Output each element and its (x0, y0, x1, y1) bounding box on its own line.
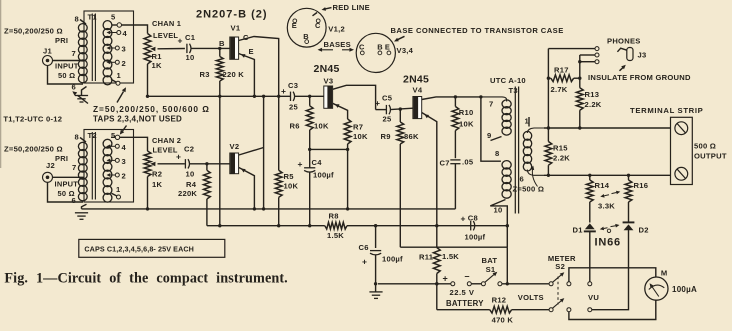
svg-text:3.3K: 3.3K (598, 202, 615, 211)
label INPUT 50ohm (chan1) (55, 62, 79, 81)
svg-text:E: E (249, 47, 254, 56)
svg-text:8: 8 (75, 133, 79, 142)
svg-text:B: B (377, 42, 383, 51)
T3 pin 1 stub (525, 117, 530, 127)
J3 sleeve wire (580, 61, 595, 63)
taps note arrow left (72, 91, 88, 103)
input jack J1 (43, 47, 53, 66)
svg-text:2N45: 2N45 (314, 63, 340, 75)
resistor R16 (625, 175, 648, 222)
diode D2 (623, 222, 649, 234)
svg-text:Fig. 1—Circuit of the compact: Fig. 1—Circuit of the compact instrument… (4, 270, 287, 286)
transistor V2 (230, 142, 240, 174)
label taps note (93, 104, 210, 124)
pot R1 1K (144, 34, 162, 71)
switch S2 lower (549, 298, 592, 312)
svg-text:LEVEL: LEVEL (153, 31, 178, 40)
svg-text:B: B (219, 39, 225, 48)
svg-text:C7: C7 (440, 159, 450, 168)
capacitor C5 (375, 94, 393, 124)
capacitor C1 (178, 33, 196, 62)
wire C2 to V2 base (189, 162, 230, 165)
svg-text:2: 2 (122, 59, 126, 68)
resistor R8 1.5K (325, 212, 347, 241)
label V3,4 (397, 46, 414, 55)
svg-text:+: + (461, 214, 466, 224)
wire R11 to volts row (437, 284, 490, 310)
V1 emitter wire (239, 54, 257, 99)
label 2N45 (V4) (403, 74, 429, 86)
svg-text:1K: 1K (152, 180, 162, 189)
V4 emitter wire (422, 113, 439, 248)
svg-text:Z=50,200/250 Ω: Z=50,200/250 Ω (4, 27, 63, 36)
transistor V1 (230, 24, 241, 60)
svg-text:B: B (303, 32, 309, 41)
svg-text:C1: C1 (185, 33, 196, 42)
capacitor C8 (461, 214, 486, 242)
svg-text:7: 7 (72, 49, 76, 58)
svg-text:E: E (292, 21, 297, 30)
wire C7 to ground bus corner (454, 164, 456, 209)
capacitor C2 (176, 145, 194, 179)
svg-text:8: 8 (75, 15, 79, 24)
svg-text:86K: 86K (404, 132, 419, 141)
wire D2 to S2 (592, 230, 629, 310)
page edge artifact (0, 0, 1, 168)
svg-text:Z=500 Ω: Z=500 Ω (513, 185, 545, 194)
svg-text:+: + (375, 98, 380, 108)
T1 tap 4 (107, 29, 128, 38)
V1 collector wire (239, 37, 279, 97)
transformer T2 box (84, 130, 134, 203)
label BASE CONNECTED TO TRANSISTOR CASE (391, 26, 564, 42)
svg-text:10K: 10K (284, 182, 299, 191)
resistor R12 470K (490, 296, 514, 325)
svg-text:R4: R4 (186, 180, 197, 189)
capacitor C7 .05 (440, 158, 474, 168)
svg-text:100µA: 100µA (672, 285, 697, 294)
svg-text:2.7K: 2.7K (551, 85, 568, 94)
svg-text:C8: C8 (468, 214, 478, 223)
resistor R14 33K (586, 175, 609, 222)
wire S1 to S2 (502, 282, 549, 285)
svg-text:INPUT: INPUT (55, 180, 79, 189)
svg-text:S1: S1 (486, 265, 496, 274)
svg-text:7: 7 (72, 163, 76, 172)
svg-text:C: C (315, 21, 321, 30)
J3 contact circles (595, 47, 599, 64)
label INPUT 50ohm (chan2) (55, 180, 79, 199)
J3 tip wire (548, 48, 595, 50)
resistor R10 10K (452, 97, 474, 158)
switch S2 upper (549, 272, 592, 286)
wire J2 shell to T2 pin 6 (48, 182, 84, 202)
capacitor C4 (298, 149, 335, 227)
caps note box (79, 239, 225, 257)
svg-text:INPUT: INPUT (55, 62, 79, 71)
label 2N207-B(2) (196, 9, 268, 21)
arrow to secondary (531, 166, 538, 187)
T1 tap 5 (112, 23, 122, 27)
svg-text:220K: 220K (178, 189, 197, 198)
svg-text:T1,T2-UTC 0-12: T1,T2-UTC 0-12 (3, 115, 62, 124)
wire batt to S1 (471, 283, 481, 285)
svg-text:V1: V1 (231, 24, 241, 33)
terminal screw lower (675, 167, 688, 180)
svg-text:R3: R3 (200, 70, 210, 79)
svg-text:9: 9 (487, 131, 491, 140)
wire tap5 to R1 (122, 25, 148, 34)
wire J2 to T2 pin 7 (53, 163, 85, 177)
svg-text:2N207-B (2): 2N207-B (2) (196, 9, 268, 21)
R1 wiper arrow (150, 47, 185, 52)
svg-text:BATTERY: BATTERY (446, 299, 484, 308)
svg-text:RED LINE: RED LINE (333, 3, 370, 12)
svg-text:BASE CONNECTED TO TRANSISTOR C: BASE CONNECTED TO TRANSISTOR CASE (391, 26, 564, 35)
T1 tap 1 (111, 71, 122, 85)
resistor R11 1.5K (419, 248, 459, 286)
svg-text:.05: .05 (462, 158, 474, 167)
svg-text:PRI: PRI (55, 154, 68, 163)
ground symbol at C6 (369, 284, 382, 299)
T2 tap 4 (107, 143, 127, 152)
transistor V4 (413, 86, 423, 119)
label PHONES (607, 37, 641, 46)
meter bottom wire (569, 300, 656, 319)
svg-text:C5: C5 (382, 94, 393, 103)
label INSULATE FROM GROUND (588, 65, 691, 82)
resistor R3 220K (200, 48, 245, 227)
svg-text:2N45: 2N45 (403, 74, 429, 86)
svg-text:R13: R13 (585, 90, 600, 99)
label 3.3K (598, 202, 615, 211)
svg-text:1K: 1K (152, 61, 162, 70)
resistor R15 2.2K (545, 142, 570, 176)
transistor V3 (324, 77, 334, 109)
label 22.5V BATTERY (446, 288, 484, 308)
V3 emitter wire (333, 103, 348, 119)
svg-text:CHAN 2: CHAN 2 (152, 136, 181, 145)
T1 core (92, 14, 95, 82)
svg-text:V3,4: V3,4 (397, 46, 414, 55)
svg-text:8: 8 (495, 149, 499, 158)
meter top wire (569, 268, 656, 282)
T2 pin 8 stub (75, 133, 87, 143)
terminal strip (671, 117, 693, 184)
label CHAN 1 LEVEL (152, 19, 181, 40)
label VOLTS (518, 293, 544, 302)
T3 pin 6 label (520, 175, 524, 184)
svg-text:J3: J3 (638, 51, 647, 60)
R13 top riser (578, 55, 581, 88)
S2 gang dashed link (557, 277, 559, 305)
label 500 ohm OUTPUT (694, 142, 727, 161)
svg-text:C: C (359, 42, 365, 51)
svg-text:R6: R6 (290, 122, 300, 131)
label V1,2 (328, 25, 345, 34)
svg-text:PHONES: PHONES (607, 37, 641, 46)
svg-text:6: 6 (72, 83, 76, 92)
svg-text:–: – (465, 271, 470, 281)
gang arrows R14 R16 (600, 191, 620, 198)
resistor R5 10K (275, 96, 298, 227)
T2 tap 5 (111, 135, 120, 139)
minus bus right segment (347, 224, 509, 227)
wire C5 to V4 base (376, 107, 413, 110)
battery terminals (443, 271, 472, 286)
svg-text:TERMINAL STRIP: TERMINAL STRIP (630, 106, 703, 115)
T3 pin 9 stub (487, 131, 502, 141)
svg-text:C6: C6 (359, 243, 369, 252)
svg-text:C4: C4 (312, 158, 323, 167)
svg-text:R8: R8 (329, 212, 339, 221)
svg-text:+: + (298, 159, 303, 169)
svg-text:+: + (281, 86, 286, 96)
svg-text:VU: VU (588, 293, 599, 302)
svg-text:22.5 V: 22.5 V (450, 288, 475, 297)
V4 collector wire (422, 95, 483, 99)
wire T2 tap5 to R2 (120, 137, 148, 151)
svg-text:D2: D2 (639, 226, 649, 235)
T2 core (92, 132, 95, 200)
resistor R17 2.7K (548, 66, 579, 95)
J3 tip spring (617, 48, 626, 52)
wire J1 shell to T1 pin 6 (48, 66, 84, 85)
output return wire (544, 174, 671, 177)
figure caption (4, 270, 287, 286)
pot R2 1K (144, 151, 162, 189)
svg-text:100µf: 100µf (465, 233, 486, 242)
svg-text:R11: R11 (419, 253, 434, 262)
svg-text:BAT: BAT (482, 256, 498, 265)
svg-text:+: + (443, 274, 449, 284)
svg-text:R12: R12 (492, 296, 507, 305)
label T1,T2-UTC 0-12 (3, 115, 62, 124)
V2 collector wire (239, 148, 264, 156)
svg-text:4: 4 (122, 143, 127, 152)
wire R6/C4 node to R7 (310, 148, 348, 150)
svg-text:V4: V4 (413, 86, 423, 95)
phones vertical feed (547, 49, 550, 142)
svg-text:R9: R9 (381, 132, 391, 141)
resistor R6 10K (290, 96, 329, 151)
resistor R4 220K (178, 164, 210, 226)
capacitor C6 (359, 226, 404, 286)
svg-text:10: 10 (494, 206, 503, 215)
svg-text:R7: R7 (353, 123, 363, 132)
label CHAN 2 LEVEL (152, 136, 181, 155)
svg-text:INSULATE FROM GROUND: INSULATE FROM GROUND (588, 73, 691, 82)
svg-text:OUTPUT: OUTPUT (694, 152, 727, 161)
svg-text:E: E (385, 42, 390, 51)
T1 secondary winding (103, 21, 112, 85)
svg-text:100µf: 100µf (313, 171, 334, 180)
label RED LINE (322, 3, 370, 12)
svg-text:+: + (176, 152, 181, 162)
transistor basing V1,2 (287, 8, 326, 47)
T2 tap 3 (107, 157, 126, 166)
svg-text:S2: S2 (555, 262, 565, 271)
label TERMINAL STRIP (630, 106, 703, 115)
svg-text:2.2K: 2.2K (585, 100, 602, 109)
svg-text:LEVEL: LEVEL (153, 146, 178, 155)
label 2N45 (V3) (314, 63, 340, 75)
svg-text:C3: C3 (288, 81, 298, 90)
svg-text:500 Ω: 500 Ω (694, 142, 716, 151)
wire R2 bottom to ground bus (146, 177, 149, 211)
svg-text:TAPS 2,3,4,NOT USED: TAPS 2,3,4,NOT USED (93, 115, 182, 124)
T2 secondary winding (103, 139, 112, 202)
label Z=50,200/250 PRI (chan 1) (4, 27, 68, 45)
capacitor C3 (281, 81, 298, 112)
svg-text:6: 6 (520, 175, 524, 184)
T2 pin 6 lead (72, 196, 87, 209)
svg-text:UTC A-10: UTC A-10 (490, 76, 526, 85)
svg-text:R14: R14 (595, 181, 610, 190)
T2 primary winding (78, 142, 87, 201)
svg-text:10: 10 (186, 53, 195, 62)
svg-text:5: 5 (111, 13, 116, 22)
label Z=500 ohm (513, 185, 545, 194)
label 100uA (672, 285, 697, 294)
svg-text:R16: R16 (634, 181, 649, 190)
svg-text:10K: 10K (459, 120, 474, 129)
ground bus wire (82, 208, 456, 210)
svg-text:50 Ω: 50 Ω (58, 71, 75, 80)
wire R1 bottom to node (146, 64, 149, 98)
svg-text:2: 2 (122, 172, 126, 181)
svg-text:1: 1 (116, 185, 121, 194)
terminal screw upper (675, 122, 688, 135)
T1 pin 8 stub (75, 15, 87, 25)
wire node to V2 collector riser (262, 95, 265, 211)
label BASES (318, 40, 355, 52)
T3 core (515, 87, 518, 214)
svg-text:R15: R15 (553, 144, 568, 153)
R2 wiper arrow (150, 162, 185, 167)
svg-text:J2: J2 (46, 161, 55, 170)
phone jack J3 (627, 48, 647, 61)
red line mark (313, 13, 318, 16)
label UTC A-10 T3 (490, 76, 526, 95)
svg-text:100µf: 100µf (382, 255, 403, 264)
battery wire (378, 282, 451, 285)
svg-text:6: 6 (72, 196, 76, 205)
T2 tap 2 (107, 172, 126, 181)
svg-text:R10: R10 (459, 108, 474, 117)
svg-text:3: 3 (122, 157, 126, 166)
wire C1 to V1 base (191, 39, 230, 50)
svg-text:T3: T3 (509, 86, 518, 95)
taps note arrow to T1 (117, 87, 126, 102)
svg-text:10: 10 (186, 170, 195, 179)
label VU (588, 293, 599, 302)
V1 collector label (243, 33, 249, 42)
wire C3 to V3 base (295, 95, 324, 98)
T1 pin 6 lead (72, 83, 87, 96)
T3 primary lower coil (502, 161, 511, 199)
svg-text:C2: C2 (184, 145, 194, 154)
label IN66 (595, 236, 621, 248)
meter needle (649, 283, 665, 296)
svg-text:25: 25 (383, 115, 392, 124)
svg-text:V2: V2 (230, 142, 240, 151)
svg-text:1.5K: 1.5K (327, 231, 344, 240)
T3 primary upper coil (481, 97, 511, 135)
svg-text:7: 7 (489, 100, 493, 109)
svg-text:Z=50,200/250, 500/600 Ω: Z=50,200/250, 500/600 Ω (93, 104, 210, 114)
svg-text:R17: R17 (554, 66, 569, 75)
ground at T1 pin 6 (75, 96, 88, 103)
svg-text:IN66: IN66 (595, 236, 621, 248)
taps note arrow to T2 (120, 126, 127, 135)
svg-text:470 K: 470 K (492, 316, 514, 325)
wire J1 to T1 pin 7 (53, 49, 85, 61)
svg-text:CAPS C1,2,3,4,5,6,8- 25V EACH: CAPS C1,2,3,4,5,6,8- 25V EACH (84, 244, 194, 253)
meter M (645, 269, 668, 301)
svg-text:J1: J1 (43, 47, 52, 56)
T1 tap 3 (107, 45, 126, 54)
label Z=50,200/250 PRI (chan 2) (4, 145, 68, 164)
wire R12 to S2 lower (512, 309, 549, 311)
T1 tap 2 (107, 59, 126, 68)
V3 collector wire (333, 85, 376, 109)
T3 pin 10 lead (490, 200, 507, 248)
svg-text:D1: D1 (573, 226, 584, 235)
svg-text:+: + (362, 257, 367, 267)
svg-text:V3: V3 (324, 77, 334, 86)
V1 emitter label (249, 47, 254, 56)
resistor R7 10K (344, 119, 368, 211)
T1 primary winding (78, 24, 87, 83)
svg-text:1: 1 (117, 71, 122, 80)
svg-text:4: 4 (123, 29, 128, 38)
resistor R9 86K (381, 109, 419, 247)
output hot wire (544, 126, 671, 129)
svg-text:R2: R2 (152, 170, 162, 179)
wire D1 to S2 (589, 231, 591, 282)
svg-text:BASES: BASES (324, 40, 351, 49)
J3 mid wire (580, 54, 595, 56)
ground symbol at T2 (75, 213, 88, 220)
supply riser (506, 247, 508, 284)
svg-text:3: 3 (122, 45, 126, 54)
svg-text:CHAN 1: CHAN 1 (152, 19, 181, 28)
resistor R13 2.2K (576, 88, 601, 128)
wire R9 bottom rail (400, 246, 507, 248)
svg-text:M: M (661, 269, 668, 278)
svg-text:1.5K: 1.5K (442, 252, 459, 261)
svg-text:10K: 10K (353, 132, 368, 141)
svg-text:PRI: PRI (55, 36, 68, 45)
svg-text:V1,2: V1,2 (328, 25, 345, 34)
switch S1 (481, 256, 502, 286)
svg-text:+: + (178, 36, 183, 46)
svg-text:220 K: 220 K (223, 70, 245, 79)
minus bus left segment (207, 225, 325, 227)
svg-text:2.2K: 2.2K (553, 154, 570, 163)
svg-text:1: 1 (525, 117, 530, 126)
T3 secondary winding (523, 128, 544, 175)
svg-text:VOLTS: VOLTS (518, 293, 544, 302)
node wire to C3 (148, 95, 291, 98)
label METER S2 (548, 254, 576, 271)
transformer T1 box (84, 11, 134, 83)
svg-text:R5: R5 (284, 172, 295, 181)
input jack J2 (43, 161, 55, 182)
svg-text:25: 25 (289, 103, 298, 112)
transistor basing V3,4 (356, 33, 395, 72)
